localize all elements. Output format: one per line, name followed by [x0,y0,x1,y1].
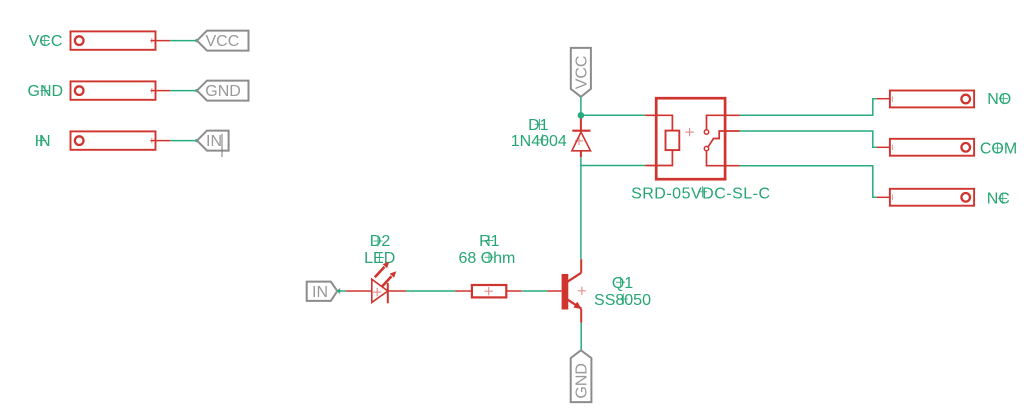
relay coil pin 2 (bottom left) [645,150,672,165]
wire relay COM to connector [740,131,877,147]
wire junction to relay coil+ [581,114,645,116]
pin stub LED anode [346,290,372,292]
net flag VCC (grey) [197,31,249,51]
connector IN (red header pin) [71,131,171,149]
relay anchor cross [685,128,693,136]
pin stub COM [877,146,890,148]
power flag GND (vertical, grey) [571,350,592,402]
svg-text:VCC: VCC [206,33,240,50]
svg-text:1N4004: 1N4004 [511,133,567,150]
svg-text:GND: GND [205,83,241,100]
junction node [578,112,585,119]
svg-text:NO: NO [987,91,1011,108]
node GND label (left, green) [28,83,64,100]
svg-text:SS8050: SS8050 [594,292,651,309]
svg-text:IN: IN [35,133,51,150]
pin stub NC [877,196,890,198]
wire R1 to Q1 base [522,290,548,292]
net flag IN (schematic input, grey) [307,282,338,301]
relay COM pin and blade [708,131,739,147]
wire IN connector to flag [170,140,197,142]
label NC [987,191,1010,208]
wire diode to collector column [580,157,582,259]
pin cross at flag tip [335,288,340,293]
connector COM [890,139,974,156]
relay NO contact (top right) [704,115,739,134]
power flag VCC (vertical, grey) [571,48,591,97]
wire relay NO to connector [740,99,877,116]
wire IN flag to LED [337,289,346,292]
node VCC label (left, green) [29,33,63,50]
svg-text:NC: NC [987,191,1010,208]
wire end dot [195,139,198,142]
relay SRD-05VDC-SL-C body [656,98,725,179]
wire VCC connector to flag [170,40,197,42]
svg-text:GND: GND [574,363,591,399]
label NO [987,91,1011,108]
connector NO [890,91,974,108]
svg-text:IN: IN [312,284,328,301]
LED D2 [372,262,397,304]
resistor R1 [472,285,506,297]
diode D1 labels [511,117,567,150]
wire branch to relay coil- [581,165,645,167]
connector GND (red header pin) [71,81,171,99]
svg-text:IN: IN [206,133,222,150]
svg-text:COM: COM [980,140,1017,157]
svg-text:VCC: VCC [573,56,590,90]
node IN label (left, green) [35,133,51,150]
diode D1 1N4004 [572,119,591,158]
net flag IN (grey) with text caret [197,131,229,157]
svg-text:D1: D1 [528,117,549,134]
LED D2 labels [364,233,395,267]
pin stub R1 right [506,290,521,292]
svg-text:VCC: VCC [29,33,63,50]
wire end dot [195,89,198,92]
connector VCC (red header pin) [71,31,171,49]
wire relay NC to connector [740,166,877,198]
wire LED to R1 [406,290,455,292]
pin stub R1 left [455,290,472,292]
label COM [980,140,1017,157]
pin stub NO [877,98,890,100]
wire Q1 emitter to GND flag [580,323,582,351]
connector NC [890,189,974,206]
svg-text:Q1: Q1 [612,275,633,292]
pin stub LED cathode [388,290,407,292]
wire VCC flag to junction [580,97,582,116]
svg-text:SRD-05VDC-SL-C: SRD-05VDC-SL-C [631,185,770,202]
wire end dot [195,39,198,42]
resistor R1 labels [458,233,515,267]
pin stub Q1 base [547,290,561,292]
wire GND connector to flag [170,90,197,92]
relay coil pin 1 (top left) [645,115,672,130]
relay NC contact (bottom right) [704,146,739,165]
transistor Q1 labels [594,275,651,309]
relay coil box [666,131,680,151]
transistor Q1 SS8050 [562,259,587,322]
svg-text:68 Ohm: 68 Ohm [458,250,515,267]
relay value label [631,185,770,202]
net flag GND (grey) [197,81,249,101]
